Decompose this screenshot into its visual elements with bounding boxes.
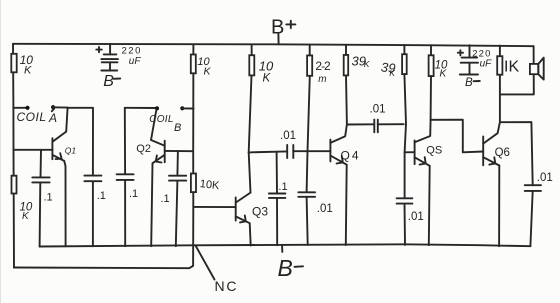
wire left rail	[13, 44, 14, 268]
label C7 .1	[278, 181, 287, 193]
label R4 10K	[199, 178, 220, 192]
transistor Q3 base bar	[235, 197, 237, 220]
transistor Q6 base bar	[482, 137, 484, 166]
label C2 .1	[44, 192, 53, 204]
label B+	[271, 17, 295, 39]
svg-text:Q3: Q3	[252, 204, 268, 218]
wire Q6 emitter to bottom rail	[498, 166, 500, 247]
wire Q4 collector to coupling cap C9	[347, 123, 374, 125]
resistor R8 39K x404 column with C10 .01	[397, 45, 413, 245]
wire Q3 base	[193, 206, 235, 208]
svg-text:COIL: COIL	[17, 110, 47, 124]
svg-text:NC: NC	[215, 278, 239, 294]
svg-text:B: B	[271, 17, 284, 39]
capacitor C11 220uF right	[460, 45, 478, 74]
speaker LS1	[530, 58, 544, 80]
label C1 220 uF	[122, 46, 142, 67]
transistor Q5 collector	[415, 120, 431, 143]
scan artifact left edge	[0, 0, 2, 303]
svg-text:.01: .01	[408, 211, 424, 223]
resistor R4 10K mid x193	[191, 174, 196, 193]
node dot coil A left	[25, 106, 29, 110]
label Q1	[65, 145, 77, 155]
resistor R6 2-2M column and C8 .01	[298, 45, 315, 245]
label R8 39K	[380, 59, 396, 77]
label Q5	[426, 145, 442, 157]
wire Q3 collector node to coupling cap	[249, 151, 287, 152]
transistor Q2 emitter	[153, 155, 165, 163]
label R9 10K	[435, 60, 448, 80]
svg-text:10: 10	[259, 58, 274, 73]
resistor R7 39K x346	[344, 45, 349, 125]
transistor Q2 collector	[151, 140, 165, 146]
wire Q1 base from left rail	[14, 149, 53, 151]
label C6 .01	[280, 130, 296, 142]
transistor Q1 emitter	[52, 153, 64, 161]
label C11 plus	[458, 50, 463, 55]
transistor Q1 collector	[52, 132, 66, 142]
transistor Q3 collector	[236, 193, 251, 203]
svg-text:.01: .01	[280, 130, 296, 142]
wire bottom rail B-	[40, 244, 531, 246]
node dot coil B right	[180, 106, 184, 110]
svg-text:.01: .01	[370, 104, 386, 116]
svg-text:K: K	[204, 65, 212, 77]
label C9 .01	[370, 104, 386, 116]
label R2 10K	[20, 201, 33, 222]
wire Q5 collector to Q6 base	[431, 120, 484, 153]
capacitor C7 .1 at x277	[269, 152, 286, 245]
label NC	[215, 278, 239, 294]
svg-text:K: K	[263, 72, 272, 84]
transistor Q4 base bar	[329, 140, 331, 162]
svg-text:.1: .1	[44, 192, 53, 204]
svg-text:.1: .1	[129, 188, 138, 200]
label Q6	[495, 147, 510, 159]
label C1 plus	[96, 47, 102, 52]
transistor Q4 emitter	[330, 156, 346, 165]
transistor Q4 collector	[330, 125, 347, 143]
wire Q3 collector up to R5 column	[249, 152, 251, 192]
coil B right terminal wire	[182, 107, 193, 109]
transistor Q6 collector	[483, 122, 500, 143]
resistor R1 10K top left	[11, 54, 16, 73]
B- tick wire	[281, 246, 283, 252]
svg-text:.1: .1	[97, 190, 106, 202]
wire bias column x193 top rail to outer loop	[192, 45, 194, 266]
transistor Q2 base bar	[164, 141, 166, 163]
resistor R3 10K top x193	[191, 55, 196, 74]
label C8 .01	[317, 203, 333, 215]
wire Q2 base to 10K column	[165, 150, 193, 152]
svg-text:K: K	[364, 59, 370, 69]
label Q4	[341, 148, 361, 162]
svg-text:K: K	[389, 68, 395, 78]
label R1 10K	[20, 53, 34, 76]
label R3 10K	[197, 56, 211, 77]
wire coupling cap to Q4 base	[293, 150, 330, 152]
svg-text:.1: .1	[278, 181, 287, 193]
svg-text:uF: uF	[480, 58, 493, 69]
capacitor C6 .01 coupling Q3-Q4	[287, 145, 293, 158]
svg-text:B: B	[174, 122, 181, 134]
wire Q5 emitter to bottom rail	[428, 166, 431, 245]
label COIL B	[149, 114, 181, 134]
svg-text:IK: IK	[504, 59, 519, 76]
label Q2	[136, 143, 151, 155]
svg-text:B: B	[278, 255, 293, 281]
transistor Q1 base bar	[51, 138, 53, 159]
wire coil A node down to Q1 collector	[66, 108, 67, 132]
transistor Q5 emitter	[415, 157, 430, 166]
svg-text:m: m	[318, 74, 326, 85]
svg-text:2-2: 2-2	[315, 59, 331, 73]
svg-text:Q2: Q2	[136, 143, 151, 155]
svg-text:QS: QS	[426, 145, 442, 157]
capacitor C3 .1 under coil A	[84, 176, 101, 247]
wire Q3 emitter to bottom rail	[250, 223, 251, 245]
wire speaker branch	[500, 46, 534, 94]
wire top rail B+	[13, 44, 534, 46]
resistor R5 10K x251	[249, 44, 255, 152]
label C5 .1	[161, 193, 170, 205]
svg-text:B: B	[103, 73, 114, 90]
NC pointer line	[196, 246, 215, 279]
wire Q4 emitter to bottom rail	[345, 165, 348, 245]
B+ tick wire	[277, 34, 279, 44]
transistor Q3 emitter	[236, 215, 250, 223]
wire bottom outer loop	[14, 266, 193, 268]
label B-	[278, 255, 304, 281]
label R10 1K	[504, 59, 519, 76]
label C3 .1	[97, 190, 106, 202]
svg-text:B: B	[465, 77, 473, 89]
wire Q1 emitter to bottom rail	[64, 161, 65, 246]
capacitor C1 220uF left	[101, 44, 118, 71]
wire coil B left dot down to Q2 collector	[151, 109, 157, 140]
wire coupling cap C9 to R8 column	[378, 123, 404, 125]
svg-text:Q6: Q6	[495, 147, 510, 159]
label C10 .01	[408, 211, 424, 223]
wire Q2 emitter to bottom rail	[151, 163, 152, 246]
label Q3	[252, 204, 268, 218]
node dot coil A right	[51, 105, 55, 109]
svg-text:A: A	[48, 111, 57, 125]
transistor Q6 emitter	[483, 157, 499, 165]
capacitor C9 .01 coupling Q4-Q5	[374, 120, 378, 133]
svg-text:Q4: Q4	[341, 148, 361, 162]
capacitor C2 .1 under Q1 base	[32, 150, 49, 247]
label R6 2-2 M	[315, 59, 331, 85]
transistor Q5 base bar	[414, 140, 416, 164]
node dot coil B left	[155, 106, 159, 110]
label C1 B-	[103, 73, 120, 90]
coil A left terminal wire	[13, 107, 27, 109]
svg-text:.01: .01	[317, 203, 333, 215]
capacitor C4 .1 under coil B	[117, 108, 134, 246]
label COIL A	[17, 109, 58, 125]
svg-text:.1: .1	[161, 193, 170, 205]
label R5 10K	[259, 58, 274, 84]
label R7 39K	[352, 53, 370, 68]
svg-text:uF: uF	[129, 56, 142, 67]
wire Q5 base	[405, 151, 415, 153]
capacitor C12 .01 right	[525, 185, 541, 246]
svg-text:COIL: COIL	[149, 114, 174, 125]
svg-text:.01: .01	[537, 172, 553, 184]
resistor R10 1K	[497, 46, 502, 123]
wire Q6 collector to C12	[500, 122, 533, 185]
label C12 .01	[537, 172, 553, 184]
coil B left terminal wire	[125, 107, 157, 109]
svg-text:220: 220	[122, 46, 142, 57]
coil A right terminal wire	[53, 106, 67, 108]
label C4 .1	[129, 188, 138, 200]
label C11 220 uF	[472, 49, 492, 70]
capacitor C5 .1 under Q2 base	[169, 151, 186, 246]
resistor R9 10K x431	[429, 45, 434, 120]
label C11 B-	[465, 77, 480, 89]
svg-text:Q1: Q1	[65, 145, 77, 155]
wire coil A node to C3 column	[67, 108, 93, 176]
svg-text:K: K	[24, 65, 32, 77]
resistor R2 10K lower left	[12, 176, 17, 194]
svg-text:10K: 10K	[199, 178, 220, 192]
